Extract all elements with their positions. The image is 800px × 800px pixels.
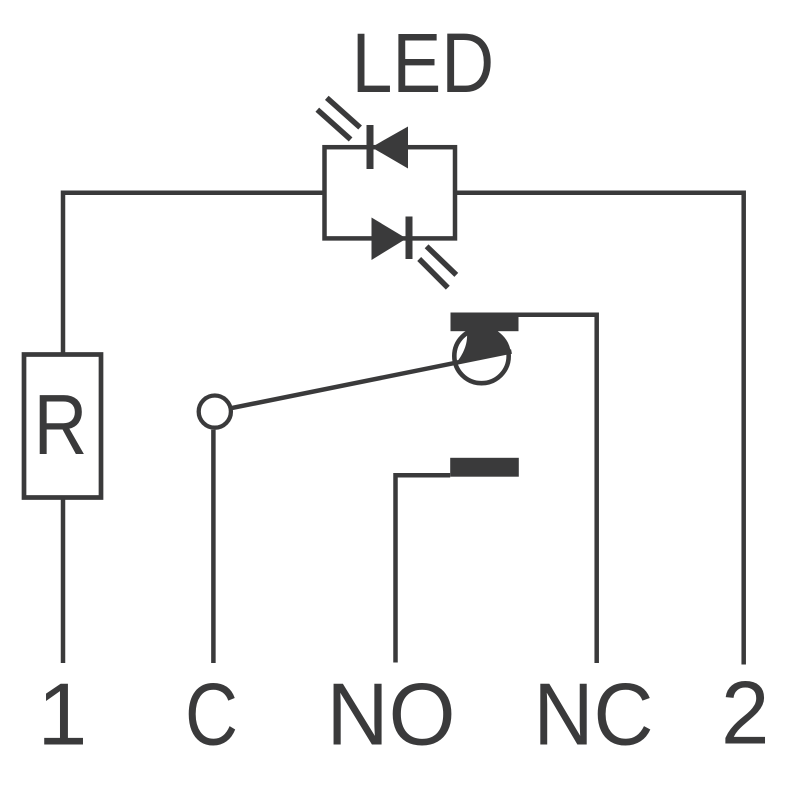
svg-text:R: R: [34, 378, 88, 473]
roller circle: [454, 329, 508, 383]
wire resistor to terminal 1: [61, 498, 66, 664]
LED2 light rays: [427, 246, 457, 275]
wire top horizontal right: [455, 193, 744, 665]
wire NC contact to right: [519, 315, 597, 663]
LED2 cathode bar: [406, 217, 413, 260]
wire NO contact to bottom: [396, 475, 451, 662]
LED1 cathode bar: [367, 125, 374, 169]
pivot circle: [199, 396, 231, 428]
wire terminal C: [211, 430, 216, 663]
NO contact bar: [450, 458, 519, 477]
LED1 triangle: [372, 127, 409, 169]
svg-text:C: C: [185, 665, 238, 764]
svg-text:NC: NC: [534, 665, 654, 764]
LED box: [325, 147, 456, 238]
wire top horizontal left: [63, 193, 325, 355]
lever wire: [231, 352, 512, 409]
LED2 triangle: [372, 218, 407, 261]
LED1 light rays: [327, 98, 360, 128]
NC contact bar: [451, 313, 519, 332]
svg-text:LED: LED: [352, 16, 495, 110]
svg-text:NO: NO: [327, 665, 456, 764]
svg-text:2: 2: [721, 663, 769, 763]
moving contact wedge: [457, 330, 512, 363]
resistor R: [24, 355, 101, 498]
svg-text:1: 1: [37, 665, 87, 764]
